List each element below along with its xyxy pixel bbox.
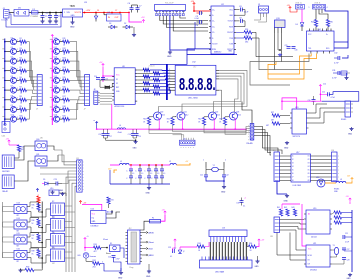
svg-text:R3: R3 bbox=[20, 48, 22, 50]
svg-text:R2: R2 bbox=[20, 38, 22, 40]
opto U13 bbox=[14, 205, 27, 214]
svg-text:GND: GND bbox=[133, 148, 138, 150]
svg-text:1: 1 bbox=[169, 69, 170, 71]
ground bbox=[55, 20, 57, 22]
svg-text:I6: I6 bbox=[292, 173, 293, 175]
wire bbox=[29, 12, 32, 14]
wire base bbox=[204, 116, 207, 118]
resistor R46 bbox=[334, 221, 342, 224]
wire bbox=[283, 219, 304, 221]
svg-text:RS485: RS485 bbox=[341, 119, 346, 121]
wire orange bbox=[325, 182, 336, 184]
crystal Y3 bbox=[334, 247, 338, 254]
svg-text:L1: L1 bbox=[120, 161, 122, 163]
svg-text:1: 1 bbox=[203, 159, 204, 161]
connector J11 bbox=[77, 160, 82, 192]
resistor R13 bbox=[60, 60, 63, 62]
wire fan bbox=[70, 42, 83, 77]
ground bbox=[257, 260, 259, 262]
capacitor C24 bbox=[112, 255, 116, 257]
svg-text:Q18: Q18 bbox=[54, 105, 57, 107]
svg-text:2: 2 bbox=[60, 49, 61, 51]
wire magenta emitter rail bbox=[97, 128, 247, 130]
wire +5V bbox=[129, 13, 142, 23]
resistor R14 bbox=[60, 70, 63, 72]
diode D2 bbox=[123, 26, 127, 28]
wire bbox=[86, 258, 93, 261]
inductor L3 bbox=[336, 181, 339, 183]
svg-text:p: p bbox=[248, 136, 249, 138]
svg-text:(MISO: (MISO bbox=[149, 255, 155, 257]
svg-text:Q4: Q4 bbox=[11, 57, 13, 59]
wire bbox=[27, 209, 51, 217]
svg-text:4K7: 4K7 bbox=[266, 125, 269, 127]
wire bbox=[27, 255, 51, 263]
capacitor C34 filter bbox=[130, 165, 132, 169]
resistor R6 bbox=[17, 79, 20, 81]
transistor Q5 bbox=[2, 67, 5, 69]
wire pink bbox=[82, 204, 102, 210]
resistor R29 bbox=[314, 20, 317, 27]
svg-text:K3: K3 bbox=[52, 217, 54, 219]
svg-text:Q11: Q11 bbox=[54, 37, 57, 39]
svg-text:2: 2 bbox=[60, 107, 61, 109]
resistor RN4 bbox=[137, 79, 153, 81]
capacitor C38 filter bbox=[161, 165, 163, 169]
resistor R27 bbox=[272, 114, 280, 117]
svg-text:D7: D7 bbox=[174, 248, 176, 250]
capacitor C19 bbox=[135, 133, 139, 135]
wire bbox=[290, 9, 297, 12]
svg-text:R48: R48 bbox=[21, 146, 24, 148]
svg-text:D2: D2 bbox=[124, 23, 126, 25]
capacitor C22 crystal load bbox=[223, 168, 225, 176]
crystal Y1 bbox=[105, 86, 110, 88]
svg-text:D+: D+ bbox=[326, 34, 328, 36]
svg-text:2: 2 bbox=[60, 117, 61, 119]
connector J8 bbox=[94, 91, 98, 104]
sensor U15 DS18B20 bbox=[91, 211, 107, 224]
resistor R35 bbox=[37, 204, 40, 211]
svg-text:SN75176: SN75176 bbox=[293, 136, 301, 138]
svg-text:o: o bbox=[83, 174, 84, 176]
svg-text:I1: I1 bbox=[292, 156, 293, 158]
svg-text:C24: C24 bbox=[108, 257, 111, 259]
svg-text:0.1: 0.1 bbox=[157, 173, 159, 175]
svg-text:8: 8 bbox=[169, 89, 170, 91]
svg-text:GND: GND bbox=[146, 193, 151, 195]
svg-text:C23: C23 bbox=[54, 179, 57, 181]
svg-text:R27: R27 bbox=[271, 112, 274, 114]
display right pins bbox=[216, 69, 219, 71]
power +5V bbox=[164, 211, 166, 214]
ground bbox=[133, 33, 135, 35]
opto U18 bbox=[317, 179, 325, 187]
wire pink rail bbox=[180, 246, 197, 248]
wire fan down bbox=[66, 177, 77, 272]
power +5V bbox=[193, 3, 195, 6]
wire bbox=[96, 12, 129, 14]
transistor Q31 block bbox=[35, 156, 47, 166]
transistor Q14 bbox=[50, 67, 53, 69]
resistor R2 bbox=[17, 41, 20, 43]
resistor R30 bbox=[326, 20, 329, 27]
wire bbox=[103, 13, 105, 15]
resistor R38 bbox=[37, 250, 40, 257]
svg-text:9: 9 bbox=[183, 14, 184, 16]
svg-text:C31: C31 bbox=[332, 70, 335, 72]
svg-text:J12: J12 bbox=[129, 228, 132, 230]
svg-text:C15: C15 bbox=[105, 79, 108, 81]
svg-text:C29: C29 bbox=[285, 45, 288, 47]
power +5V bbox=[8, 140, 10, 143]
wire black loop top bbox=[277, 145, 279, 152]
wire bbox=[205, 162, 207, 168]
svg-text:C1+: C1+ bbox=[212, 9, 215, 11]
wire orange txd rxd bbox=[268, 54, 311, 75]
capacitor C6 bbox=[131, 5, 133, 8]
chip U21 DS1302 bbox=[306, 245, 330, 267]
svg-text:R51: R51 bbox=[167, 119, 170, 121]
svg-text:2: 2 bbox=[17, 107, 18, 109]
svg-text:U18: U18 bbox=[316, 177, 319, 179]
svg-text:D4: D4 bbox=[296, 24, 298, 26]
capacitor C7 bbox=[137, 5, 139, 8]
svg-text:o: o bbox=[338, 177, 339, 179]
power +5V bbox=[84, 238, 86, 241]
transistor Q17 bbox=[50, 96, 53, 98]
wire gray bottom bbox=[259, 61, 312, 70]
opto U16 bbox=[14, 251, 27, 260]
resistor R42 bbox=[286, 209, 289, 216]
svg-text:Q16: Q16 bbox=[54, 86, 57, 88]
svg-text:C18: C18 bbox=[128, 134, 131, 136]
transistor Q30 block bbox=[35, 141, 47, 151]
svg-text:24C04: 24C04 bbox=[311, 237, 317, 239]
svg-text:+12V: +12V bbox=[86, 10, 91, 12]
svg-text:U12: U12 bbox=[193, 67, 196, 69]
ground bbox=[42, 20, 44, 22]
svg-text:C25: C25 bbox=[168, 247, 171, 249]
svg-text:O6: O6 bbox=[307, 173, 309, 175]
wire base line bbox=[225, 125, 250, 134]
power +5V blue bbox=[96, 122, 98, 125]
wire bbox=[38, 12, 63, 14]
svg-text:J16: J16 bbox=[331, 150, 334, 152]
svg-text:C33: C33 bbox=[236, 203, 239, 205]
svg-text:RS485: RS485 bbox=[334, 188, 339, 190]
resistor RN6 bbox=[137, 86, 153, 88]
resistor RN8 bbox=[137, 92, 153, 94]
svg-text:2: 2 bbox=[60, 88, 61, 90]
svg-text:9012: 9012 bbox=[161, 114, 165, 116]
power +5V bbox=[174, 239, 176, 242]
svg-text:I5: I5 bbox=[292, 170, 293, 172]
svg-text:C19: C19 bbox=[138, 136, 141, 138]
svg-text:O8: O8 bbox=[307, 180, 309, 182]
wire j9 right staircase bbox=[254, 127, 278, 153]
power +5V bbox=[80, 201, 82, 204]
wire bbox=[100, 262, 104, 264]
svg-text:C7: C7 bbox=[115, 10, 117, 12]
buzzer LS1 bbox=[2, 155, 14, 169]
connector header J10 bbox=[180, 140, 196, 145]
svg-text:K5: K5 bbox=[52, 247, 54, 249]
svg-text:Q30: Q30 bbox=[36, 139, 39, 141]
svg-text:J7: J7 bbox=[84, 109, 86, 111]
wire bbox=[334, 41, 348, 43]
svg-text:GND: GND bbox=[221, 192, 226, 194]
svg-text:3: 3 bbox=[169, 75, 170, 77]
wire bbox=[72, 17, 74, 21]
svg-text:R12: R12 bbox=[63, 48, 66, 50]
svg-text:R30: R30 bbox=[330, 22, 333, 24]
svg-text:o: o bbox=[338, 156, 339, 158]
wire left vertical bbox=[2, 202, 4, 258]
svg-text:1: 1 bbox=[309, 7, 310, 9]
relay K3 bbox=[51, 219, 65, 232]
svg-text:J11: J11 bbox=[76, 158, 79, 160]
wire blue bottom bus bbox=[110, 183, 170, 185]
connector bbox=[37, 75, 42, 106]
resistor RN3 bbox=[137, 76, 143, 78]
wire pink bbox=[301, 9, 303, 21]
svg-text:Q5: Q5 bbox=[11, 66, 13, 68]
component U10 bbox=[49, 190, 59, 196]
svg-text:1: 1 bbox=[156, 14, 157, 16]
svg-text:LED MA8: LED MA8 bbox=[215, 270, 225, 273]
svg-text:0.1: 0.1 bbox=[141, 173, 143, 175]
power +24V orange bbox=[114, 170, 117, 173]
chip U19 SN75176 bbox=[292, 109, 307, 134]
wire magenta bbox=[282, 98, 297, 110]
resistor R16 bbox=[60, 89, 63, 91]
wire bbox=[332, 259, 344, 264]
svg-text:S1: S1 bbox=[110, 243, 112, 245]
svg-text:R18: R18 bbox=[63, 106, 66, 108]
resistor R31 bbox=[107, 197, 110, 204]
relay K1 bbox=[2, 175, 14, 189]
svg-text:C14: C14 bbox=[94, 76, 97, 78]
svg-text:R13: R13 bbox=[63, 58, 66, 60]
wire segment bus bbox=[162, 69, 168, 71]
svg-text:R6: R6 bbox=[20, 77, 22, 79]
capacitor C12 bbox=[320, 93, 327, 95]
transistor Q13 bbox=[50, 58, 53, 60]
component small J6 bbox=[341, 71, 347, 75]
wire segment bus thick bbox=[166, 64, 168, 100]
resistor R41 bbox=[279, 209, 282, 216]
resistor RN7 bbox=[137, 89, 143, 91]
switch S1 reset bbox=[110, 245, 121, 252]
resistor R51 base bbox=[171, 118, 174, 126]
chip U20 24C04 bbox=[306, 210, 330, 234]
svg-text:I4: I4 bbox=[292, 166, 293, 168]
ground bbox=[351, 127, 353, 129]
svg-text:MAX232: MAX232 bbox=[214, 51, 221, 54]
wire bus vertical bbox=[51, 39, 53, 126]
svg-text:R15: R15 bbox=[63, 77, 66, 79]
transistor Q22 digit driver 9012 bbox=[209, 112, 217, 120]
wire base line bbox=[173, 125, 251, 131]
wire vertical bus bbox=[41, 202, 43, 269]
ground bbox=[120, 271, 122, 273]
svg-text:(Reset: (Reset bbox=[149, 241, 155, 244]
svg-text:0.1uF: 0.1uF bbox=[195, 18, 199, 20]
wire bbox=[206, 177, 224, 181]
wire bbox=[106, 138, 136, 140]
connector CZ1 bbox=[2, 122, 10, 133]
svg-text:R53: R53 bbox=[219, 119, 222, 121]
svg-text:U21: U21 bbox=[313, 243, 316, 245]
svg-text:220x8: 220x8 bbox=[149, 66, 156, 68]
svg-text:2: 2 bbox=[225, 159, 226, 161]
svg-text:o: o bbox=[83, 177, 84, 179]
wire bbox=[283, 155, 289, 157]
capacitor C11 bbox=[342, 235, 344, 239]
transistor Q8 bbox=[2, 96, 5, 98]
inductor L4 bbox=[117, 128, 120, 129]
svg-text:I3: I3 bbox=[292, 163, 293, 165]
resistor R32 bbox=[93, 262, 101, 265]
svg-text:T1OUT: T1OUT bbox=[227, 21, 233, 23]
svg-text:o: o bbox=[83, 186, 84, 188]
wire bbox=[9, 12, 14, 14]
svg-text:R8: R8 bbox=[20, 96, 22, 98]
wire bbox=[14, 146, 35, 160]
relay K2 bbox=[51, 203, 65, 216]
svg-text:J15: J15 bbox=[273, 150, 276, 152]
svg-text:O7: O7 bbox=[307, 177, 309, 179]
svg-text:X2: X2 bbox=[116, 83, 118, 85]
wire bbox=[102, 67, 104, 82]
resistor R3 bbox=[17, 50, 20, 52]
svg-text:9012: 9012 bbox=[185, 114, 189, 116]
svg-text:U19: U19 bbox=[295, 107, 298, 109]
svg-text:Y3: Y3 bbox=[333, 245, 335, 247]
resistor R48 bbox=[8, 144, 10, 146]
wire bbox=[3, 252, 15, 254]
svg-text:R36: R36 bbox=[32, 220, 35, 222]
wire return bbox=[6, 14, 61, 27]
ribbon wires bbox=[209, 242, 211, 260]
capacitor C16 bbox=[102, 133, 106, 135]
ground bbox=[148, 270, 150, 272]
transistor Q20 digit driver 9012 bbox=[154, 112, 162, 120]
svg-text:LED_SM4: LED_SM4 bbox=[188, 97, 198, 99]
svg-text:7: 7 bbox=[176, 14, 177, 16]
svg-text:K4: K4 bbox=[52, 232, 54, 234]
ground bbox=[279, 53, 281, 55]
svg-text:A0: A0 bbox=[308, 213, 310, 216]
diode D5 bbox=[42, 183, 45, 185]
svg-text:2: 2 bbox=[60, 69, 61, 71]
wire magenta rail bbox=[282, 203, 300, 205]
svg-text:+v: +v bbox=[93, 120, 95, 122]
capacitor C31 bbox=[337, 71, 339, 75]
transistor Q19 usb bbox=[275, 20, 286, 28]
wire bbox=[3, 221, 15, 223]
svg-text:o: o bbox=[83, 171, 84, 173]
svg-text:X1: X1 bbox=[116, 79, 118, 81]
svg-text:R43: R43 bbox=[292, 207, 295, 209]
power +5V bbox=[258, 239, 260, 242]
svg-text:4: 4 bbox=[169, 78, 170, 80]
svg-text:I8: I8 bbox=[292, 180, 293, 182]
svg-text:RS-232F: RS-232F bbox=[165, 2, 174, 4]
resistor R15 bbox=[60, 79, 63, 81]
svg-text:Q10: Q10 bbox=[11, 115, 14, 117]
resistor R52 base bbox=[202, 118, 205, 126]
ground bbox=[223, 185, 225, 187]
svg-text:0.1: 0.1 bbox=[243, 206, 245, 208]
wire magenta down bbox=[111, 105, 113, 130]
svg-text:C32: C32 bbox=[334, 53, 337, 55]
bridge rectifier D6 bbox=[14, 10, 29, 17]
svg-text:O2: O2 bbox=[307, 159, 309, 161]
capacitor C5 bbox=[55, 13, 57, 16]
svg-text:R17: R17 bbox=[63, 96, 66, 98]
svg-text:2: 2 bbox=[17, 98, 18, 100]
capacitor C27 bbox=[342, 247, 346, 249]
svg-text:C22: C22 bbox=[226, 174, 229, 176]
svg-text:R33: R33 bbox=[198, 243, 201, 245]
svg-text:817: 817 bbox=[17, 261, 20, 263]
wire bbox=[3, 206, 15, 208]
svg-text:8.8.8.8.: 8.8.8.8. bbox=[179, 74, 216, 94]
wire emitter magenta bbox=[234, 118, 236, 129]
ground bbox=[49, 20, 51, 22]
svg-text:p: p bbox=[248, 139, 249, 141]
resistor R19 bbox=[60, 118, 63, 120]
relay K5 bbox=[51, 249, 65, 262]
chip U4 CH340 bbox=[307, 31, 335, 51]
svg-text:2K4: 2K4 bbox=[93, 267, 96, 269]
wire bbox=[149, 129, 181, 138]
wire blue bottom bbox=[277, 182, 287, 195]
svg-text:J8: J8 bbox=[94, 89, 96, 91]
svg-text:2: 2 bbox=[17, 59, 18, 61]
svg-text:Q8: Q8 bbox=[11, 95, 13, 97]
svg-text:Q22: Q22 bbox=[215, 112, 218, 114]
svg-text:o: o bbox=[338, 173, 339, 175]
wire blue loop bbox=[322, 92, 359, 102]
svg-text:D1: D1 bbox=[97, 10, 99, 12]
wire bbox=[194, 6, 211, 11]
svg-text:BUZZER: BUZZER bbox=[2, 171, 10, 173]
svg-text:2: 2 bbox=[60, 98, 61, 100]
capacitor C3 bbox=[197, 12, 200, 14]
opto U14 bbox=[14, 220, 27, 229]
transistor Q11 bbox=[50, 38, 53, 40]
svg-text:o: o bbox=[83, 168, 84, 170]
svg-text:0.1: 0.1 bbox=[132, 173, 134, 175]
svg-text:2: 2 bbox=[17, 40, 18, 42]
svg-text:p: p bbox=[248, 131, 249, 133]
capacitor C32 bbox=[342, 55, 348, 58]
svg-text:RST: RST bbox=[116, 87, 119, 89]
resistor R33 bbox=[197, 245, 205, 248]
wire orange out bbox=[176, 163, 190, 165]
resistor RN5 bbox=[137, 82, 143, 84]
svg-text:D3: D3 bbox=[109, 23, 111, 25]
capacitor C29 bbox=[287, 46, 291, 48]
wire bbox=[132, 4, 138, 6]
resistor R26 bbox=[85, 247, 94, 249]
svg-text:Q13: Q13 bbox=[54, 57, 57, 59]
power +24V bbox=[351, 178, 353, 181]
svg-text:GND: GND bbox=[59, 190, 64, 192]
